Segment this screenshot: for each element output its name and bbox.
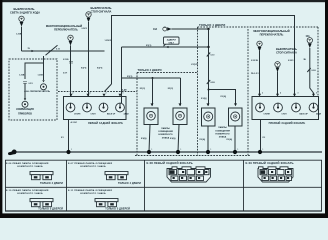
wire diagonal into lamp (105, 84, 112, 92)
node junction dot 2 (207, 46, 209, 48)
connector E-06 (30, 172, 53, 180)
svg-text:ОСВЕЩЕНИЯ: ОСВЕЩЕНИЯ (158, 131, 173, 133)
svg-text:ОСВЕЩЕНИЯ: ОСВЕЩЕНИЯ (215, 130, 230, 132)
bracket wire in box (25, 63, 44, 80)
lamp R3 (292, 103, 301, 112)
wire backup switch down (21, 27, 23, 51)
wire tail feed left (122, 46, 209, 48)
wire stub to switch box (43, 56, 45, 63)
license lamp D box (229, 108, 243, 126)
wire stop switch down (88, 22, 90, 97)
svg-text:«НН» ПЕРЕКЛЮЧАТЕЛЬ: «НН» ПЕРЕКЛЮЧАТЕЛЬ (24, 90, 51, 93)
lamp: switch illumination (41, 84, 47, 90)
dash region C (58, 88, 137, 91)
pin numbers left box (73, 92, 124, 95)
svg-text:КОМБИНАЦИЯ: КОМБИНАЦИЯ (16, 108, 34, 111)
svg-text:8.2Н: 8.2Н (312, 70, 317, 72)
switch contact blade (46, 45, 58, 55)
arrow into panel lamp (24, 98, 26, 100)
wire tail vertical left (121, 47, 123, 103)
wire fuse to node (171, 28, 208, 30)
right rear lamp box (252, 97, 319, 120)
svg-text:КЧ(Ц): КЧ(Ц) (200, 139, 206, 141)
svg-text:Е-07 ПРАВАЯ ЛАМПА ОСВЕЩЕНИЯ: Е-07 ПРАВАЯ ЛАМПА ОСВЕЩЕНИЯ (68, 162, 112, 165)
entry arrows left box (70, 94, 122, 97)
svg-text:ВЫКЛЮЧАТЕЛЬ: ВЫКЛЮЧАТЕЛЬ (276, 47, 297, 51)
svg-text:BACK UP: BACK UP (300, 113, 309, 116)
svg-text:Е-11 ПРАВАЯ ЛАМПА ОСВЕЩЕНИЯ: Е-11 ПРАВАЯ ЛАМПА ОСВЕЩЕНИЯ (68, 189, 112, 192)
left dashed box multifunction assembly (9, 59, 57, 120)
svg-text:1.25В: 1.25В (19, 75, 25, 77)
svg-text:10А: 10А (153, 28, 158, 31)
svg-text:СТОП: СТОП (282, 114, 288, 116)
wire long stop distribution line (112, 16, 295, 97)
wire license C ground (207, 126, 209, 152)
wire to license lamp B (180, 78, 182, 106)
lamp R2 (274, 103, 283, 112)
svg-text:0.5КЗ: 0.5КЗ (288, 60, 294, 62)
svg-text:НОМЕРНОГО ЗНАКА: НОМЕРНОГО ЗНАКА (17, 165, 43, 168)
switch S4 multifunction right (257, 41, 262, 51)
tick 8.2 right (307, 68, 316, 72)
wire right box ground (260, 120, 262, 153)
bus junction dots (66, 150, 262, 154)
wire stop right down (277, 72, 279, 95)
label license lamps 5door (215, 126, 230, 138)
wire 5door license branch (209, 90, 236, 106)
svg-text:4 ДВ: 4 ДВ (122, 88, 127, 91)
left rear lamp box (64, 97, 127, 120)
wire license B ground (178, 125, 179, 153)
pin ticks at dots (71, 149, 264, 151)
wire labels КЧ(Ц) (141, 138, 232, 141)
node lic left (152, 77, 154, 79)
license lamp B box (173, 108, 187, 125)
label license lamps 4door (158, 127, 173, 139)
label: multifunction switch right (253, 29, 289, 37)
dash region B: 4-door only mid (137, 68, 198, 155)
svg-text:ПРИБОРОВ: ПРИБОРОВ (18, 112, 32, 115)
svg-text:КЧ(Ц): КЧ(Ц) (170, 138, 176, 140)
dash region A: 4-door only top (198, 23, 319, 156)
svg-text:ONLY: ONLY (168, 42, 174, 44)
connector E-10 (30, 199, 53, 207)
label: backup light switch (10, 7, 40, 14)
svg-text:Е-09 ПРАВЫЙ ЗАДНИЙ ФОНАРЬ: Е-09 ПРАВЫЙ ЗАДНИЙ ФОНАРЬ (246, 161, 294, 165)
wire left box ground (68, 120, 70, 153)
switch S1 backup light switch (19, 16, 24, 26)
svg-text:СТОП-СИГНАЛА: СТОП-СИГНАЛА (91, 10, 112, 14)
svg-text:3: 3 (106, 93, 107, 95)
svg-text:А 2.2И: А 2.2И (71, 121, 78, 124)
svg-text:НОМЕРНОГО ЗНАКА: НОМЕРНОГО ЗНАКА (80, 165, 106, 168)
switch S3 multifunction left (68, 35, 73, 45)
svg-text:ЛАМПЫ: ЛАМПЫ (218, 126, 227, 129)
scan border top (0, 0, 328, 2)
license lamp A box (144, 108, 158, 125)
svg-text:РА 0.5Ч: РА 0.5Ч (251, 72, 259, 75)
dash bottom edge (135, 155, 250, 157)
svg-text:ЗНАКА: ЗНАКА (162, 136, 170, 139)
svg-text:1.25В: 1.25В (38, 75, 44, 77)
connector E-07 (105, 172, 128, 180)
svg-text:НОМЕРНОГО: НОМЕРНОГО (215, 133, 230, 135)
svg-text:BACK UP: BACK UP (107, 113, 116, 116)
svg-text:0.5Ч: 0.5Ч (63, 73, 68, 75)
connector E-08 (167, 167, 211, 182)
switch S6 fuse right (307, 38, 312, 48)
svg-text:0.5ЧБ: 0.5ЧБ (63, 59, 69, 61)
svg-text:КЗ(Ч): КЗ(Ч) (127, 76, 133, 78)
pin numbers right box (262, 92, 317, 95)
wire backup horizontal run (22, 50, 105, 52)
svg-text:СТОП-СИГНАЛА: СТОП-СИГНАЛА (276, 51, 297, 55)
switch S5 stop right (275, 62, 280, 72)
wire license D ground (234, 126, 236, 152)
cell E-11 header (68, 189, 112, 195)
ground terminal (8, 150, 17, 156)
lamp labels (74, 113, 129, 116)
svg-text:ПРАВЫЙ ЗАДНИЙ ФОНАРЬ: ПРАВЫЙ ЗАДНИЙ ФОНАРЬ (269, 122, 306, 125)
license lamp C box (202, 108, 216, 126)
svg-text:ВЫКЛЮЧАТЕЛЬ: ВЫКЛЮЧАТЕЛЬ (13, 7, 34, 11)
lamp L1 (66, 103, 75, 112)
fuse symbol (163, 27, 172, 31)
svg-text:5: 5 (316, 93, 317, 95)
wire multifunction left down (70, 45, 72, 97)
lamp: panel illumination (22, 101, 28, 107)
arrow on tail feed (166, 46, 169, 48)
svg-text:2: 2 (262, 93, 263, 95)
svg-text:ВЫКЛЮЧАТЕЛЬ: ВЫКЛЮЧАТЕЛЬ (90, 6, 111, 10)
svg-text:НОМЕРНОГО: НОМЕРНОГО (158, 134, 173, 136)
svg-text:ПЕРЕКЛЮЧАТЕЛЬ: ПЕРЕКЛЮЧАТЕЛЬ (260, 33, 284, 37)
inline connector tick 8.2 (207, 80, 215, 84)
label panel illumination (16, 108, 34, 115)
note box 4 doors only (164, 37, 180, 46)
scan border right (325, 0, 328, 218)
label: stop lamp switch (90, 6, 111, 14)
svg-text:8.2Н: 8.2Н (211, 82, 216, 84)
svg-text:СТОЯН: СТОЯН (74, 114, 81, 116)
label: stop lamp switch right (276, 47, 297, 55)
wire license feed horizontal (122, 77, 181, 79)
svg-text:Е-08 ЛЕВЫЙ ЗАДНИЙ ФОНАРЬ: Е-08 ЛЕВЫЙ ЗАДНИЙ ФОНАРЬ (147, 161, 193, 165)
svg-text:ЛАМПЫ: ЛАМПЫ (161, 127, 170, 130)
scan border bottom (0, 213, 328, 218)
svg-text:2: 2 (73, 93, 74, 95)
inline connector tick 5.10 (207, 53, 215, 57)
svg-text:ТОЛЬКО 5 ДВЕРЕЙ: ТОЛЬКО 5 ДВЕРЕЙ (38, 208, 63, 211)
svg-text:ТОЛЬКО 5 ДВЕРЕЙ: ТОЛЬКО 5 ДВЕРЕЙ (105, 208, 130, 211)
svg-text:ЗАДН: ЗАДН (124, 113, 130, 116)
connector E-09 (258, 167, 293, 182)
svg-text:КЗ(Ч): КЗ(Ч) (97, 68, 103, 70)
svg-text:ЛЕВЫЙ ЗАДНИЙ ФОНАРЬ: ЛЕВЫЙ ЗАДНИЙ ФОНАРЬ (88, 122, 123, 125)
svg-text:КЗ(Ч): КЗ(Ч) (140, 88, 146, 90)
svg-text:ТОЛЬКО 4 ДВЕРИ: ТОЛЬКО 4 ДВЕРИ (138, 68, 162, 72)
wire license A ground (149, 125, 150, 153)
svg-text:КЧ(Ц): КЧ(Ц) (201, 98, 207, 100)
entry arrows license (151, 103, 238, 106)
svg-text:КЧ(Ц): КЧ(Ц) (221, 96, 227, 98)
svg-text:КЧ(Ц): КЧ(Ц) (227, 139, 233, 141)
svg-text:СВЕТА ЗАДНЕГО ХОДА: СВЕТА ЗАДНЕГО ХОДА (10, 11, 40, 15)
connector ticks (23, 82, 27, 84)
svg-text:Е-06 ЛЕВАЯ ЛАМПА ОСВЕЩЕНИЯ: Е-06 ЛЕВАЯ ЛАМПА ОСВЕЩЕНИЯ (6, 162, 49, 165)
dash vertical 5door (247, 29, 249, 156)
wire right fuse down (310, 48, 314, 95)
wire main right feed vertical (208, 29, 210, 106)
svg-text:ТОЛЬКО 4 ДВЕРИ: ТОЛЬКО 4 ДВЕРИ (118, 182, 141, 185)
svg-text:КЗ(Ч): КЗ(Ч) (146, 45, 152, 47)
node junction dot (207, 28, 209, 30)
switch S2 stop lamp switch (86, 12, 91, 22)
svg-text:ТОЛЬКО 4 ДВЕРИ: ТОЛЬКО 4 ДВЕРИ (40, 182, 63, 185)
lamp R1 (256, 103, 265, 112)
switch contact pivot (49, 50, 51, 52)
svg-text:3: 3 (298, 93, 299, 95)
connector ticks on wire (69, 61, 73, 63)
cell E-07 header (68, 162, 112, 168)
svg-text:0.5КЗ: 0.5КЗ (82, 28, 88, 30)
svg-text:МНОГОФУНКЦИОНАЛЬНЫЙ: МНОГОФУНКЦИОНАЛЬНЫЙ (253, 29, 289, 33)
svg-text:КЗ(Ч): КЗ(Ч) (168, 88, 174, 90)
svg-text:Е-10 ЛЕВАЯ ЛАМПА ОСВЕЩЕНИЯ: Е-10 ЛЕВАЯ ЛАМПА ОСВЕЩЕНИЯ (6, 189, 49, 192)
svg-text:5: 5 (123, 93, 124, 95)
svg-text:КЧ(Ц): КЧ(Ц) (141, 138, 147, 140)
lamp L2 (83, 103, 92, 112)
node 5door branch (208, 89, 210, 91)
wire to license lamp A (152, 78, 154, 106)
svg-text:4 ДВЕРИ: 4 ДВЕРИ (167, 38, 176, 41)
table frame (5, 160, 322, 211)
svg-text:0.5Ч: 0.5Ч (29, 83, 34, 85)
svg-text:КЗ(Ч): КЗ(Ч) (81, 68, 87, 70)
svg-text:ТОЛЬКО 4 ДВЕРИ: ТОЛЬКО 4 ДВЕРИ (199, 23, 225, 27)
scan border left (0, 0, 2, 218)
svg-text:ПЕРЕКЛЮЧАТЕЛЬ: ПЕРЕКЛЮЧАТЕЛЬ (54, 28, 78, 32)
svg-text:СТОЯН: СТОЯН (264, 114, 271, 116)
lamp L4 (116, 103, 125, 112)
label: multifunction switch left (46, 24, 82, 32)
svg-text:1.25КЗ: 1.25КЗ (105, 40, 112, 42)
ground bus (13, 151, 322, 153)
arrow on backup wire (32, 50, 35, 52)
svg-text:0.5КЧБ: 0.5КЧБ (251, 60, 258, 62)
lamp R4 (309, 103, 318, 112)
svg-text:МНОГОФУНКЦИОНАЛЬНЫЙ: МНОГОФУНКЦИОНАЛЬНЫЙ (46, 24, 82, 28)
cell E-06 header (6, 162, 49, 168)
svg-text:1.25В: 1.25В (16, 34, 22, 36)
svg-text:СТОП: СТОП (91, 114, 97, 116)
svg-text:НОМЕРНОГО ЗНАКА: НОМЕРНОГО ЗНАКА (80, 192, 106, 195)
entry arrows right box (258, 94, 315, 97)
svg-text:ЗНАКА: ЗНАКА (219, 136, 227, 139)
connector E-11 (95, 199, 118, 207)
lamp labels right (264, 113, 322, 116)
wire down to panel lamp (24, 84, 26, 100)
cell E-10 header (6, 189, 49, 195)
lamp L3 (99, 103, 108, 112)
arrow into lamp (42, 80, 44, 82)
svg-text:НОМЕРНОГО ЗНАКА: НОМЕРНОГО ЗНАКА (17, 192, 43, 195)
wire mf right down (259, 51, 261, 95)
svg-text:ЗАДН: ЗАДН (316, 113, 322, 116)
